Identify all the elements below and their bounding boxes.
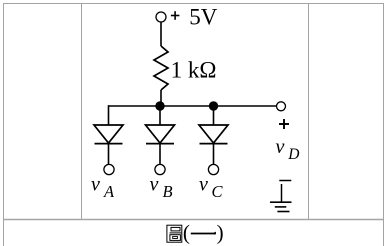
svg-text:C: C (212, 182, 224, 201)
wire supply terminal to resistor R1 (160, 22, 162, 46)
diode D1 (94, 125, 123, 144)
svg-text:v: v (199, 173, 208, 195)
minus polarity sign of vD (279, 180, 291, 182)
table column divider right (308, 3, 310, 220)
label vD (276, 136, 300, 163)
svg-text:B: B (163, 182, 173, 201)
label vB (150, 173, 173, 201)
ground (270, 184, 292, 212)
wire anode stub diode D3 (213, 106, 215, 125)
supply terminal +5V (156, 12, 166, 22)
label vA (91, 173, 115, 201)
caption glyph One (CJK dash) (191, 232, 216, 235)
table column divider left (81, 3, 83, 220)
diode D2 (146, 125, 175, 144)
terminal vB (155, 164, 165, 174)
table left border (3, 3, 5, 246)
resistor R1 (154, 46, 168, 90)
svg-text:5V: 5V (189, 5, 218, 30)
caption figure one: glyph Tu (CJK "figure") drawn as strokes (167, 225, 182, 242)
wire bus horizontal (109, 105, 277, 107)
label vC (199, 173, 224, 201)
wire cathode diode D3 to terminal vC (213, 144, 215, 165)
svg-text:A: A (103, 182, 115, 201)
svg-text:D: D (287, 146, 299, 163)
junction node at diode D3 (209, 101, 218, 110)
junction node at diode D2 (155, 101, 164, 110)
svg-text:): ) (217, 221, 224, 245)
wire anode stub diode D2 (159, 106, 161, 125)
wire resistor R1 to bus node (160, 90, 162, 106)
svg-text:v: v (150, 173, 159, 195)
wire cathode diode D2 to terminal vB (159, 144, 161, 165)
table right border (383, 3, 385, 246)
wire anode stub diode D1 (108, 105, 110, 125)
svg-text:1 kΩ: 1 kΩ (171, 58, 217, 83)
wire cathode diode D1 to terminal vA (108, 144, 110, 165)
svg-text:(: ( (183, 221, 190, 245)
diode D3 (199, 125, 228, 144)
table row divider (3, 219, 384, 221)
terminal vA (104, 164, 114, 174)
svg-text:v: v (276, 136, 285, 158)
svg-text:v: v (91, 173, 100, 195)
table top border (3, 3, 384, 5)
output terminal vD (277, 102, 286, 111)
plus polarity sign of vD (279, 119, 289, 129)
plus sign of 5V label (171, 11, 180, 20)
terminal vC (208, 164, 218, 174)
